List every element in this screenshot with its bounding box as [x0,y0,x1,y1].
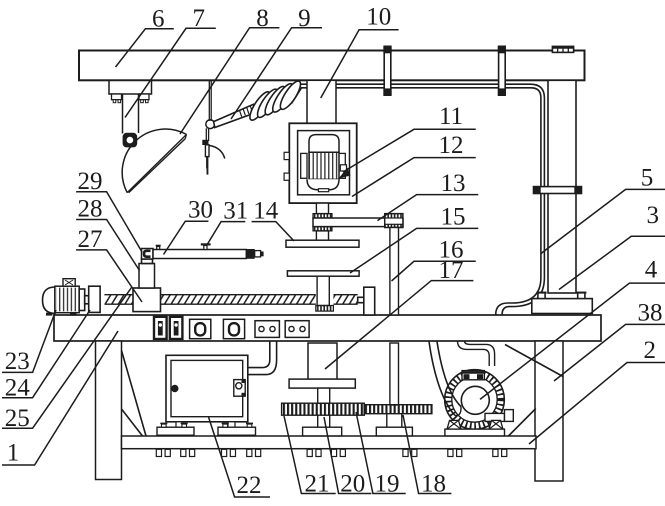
right brace lower [508,409,535,437]
motor bowl bottom [307,179,339,190]
lead screw item 25 [105,295,134,304]
svg-text:28: 28 [78,196,103,223]
top beam (item 6) [79,51,585,81]
lamp arm item 7 [122,94,124,134]
leader 19 [356,412,406,494]
socket plate 2 [285,321,309,338]
central column item 10 [307,80,336,123]
svg-text:8: 8 [256,5,269,32]
motor shaft [85,296,89,304]
right clamp pin bottom cap [498,88,506,95]
svg-text:14: 14 [253,197,279,224]
pipe elbow from coil, outer line [289,84,307,101]
svg-text:15: 15 [441,204,466,231]
leader 1 [2,331,118,465]
pump inner rotor [461,386,489,414]
motor right knob [340,165,346,171]
bolt pairs under shelf [156,449,161,456]
needle bracket [205,128,207,141]
left pedestal base [303,427,342,436]
platen support column [317,276,329,305]
lamp mount bracket [109,81,152,95]
motor foot right [70,313,77,316]
torch coil [246,89,273,123]
pump feet [447,420,461,429]
support column item 28 [139,264,155,289]
leader 24 [2,310,90,398]
ribbed cap on top of beam right [552,46,573,52]
svg-text:3: 3 [647,202,660,229]
hanging rod [208,81,210,122]
svg-text:23: 23 [5,348,30,375]
cylinder rod tip [261,252,264,257]
toggle switch 1 [154,317,167,339]
small pin item 31 [201,243,211,245]
upper platen item 14 [286,240,359,247]
leader 21 [284,416,336,494]
leader 38 [554,324,665,381]
svg-text:27: 27 [78,226,103,253]
needle clamp block [202,140,208,145]
left clamp pin top cap [383,46,391,53]
left clamp pin through beam [384,46,391,95]
platen support pad [316,306,334,312]
svg-text:21: 21 [305,470,330,497]
left pedestal stem item 20 [318,415,330,427]
lamp shade item 8 [122,129,186,193]
cylinder rod stub [255,251,261,257]
leader 25 [2,288,132,429]
svg-text:11: 11 [439,103,463,130]
svg-text:38: 38 [638,300,663,327]
rod knob [206,120,215,129]
lower clamp plate [289,379,355,388]
control box legs [176,422,183,427]
leader 28 [76,220,139,271]
right pedestal base [376,427,412,436]
svg-text:17: 17 [439,257,464,284]
plinth bolts [162,424,167,427]
base bolt right [578,293,585,299]
right clamp pin through beam [499,46,506,95]
svg-text:19: 19 [375,470,400,497]
leader 27 [76,250,142,302]
lamp joint [123,133,138,148]
air pipe item 5 outer line [336,84,544,314]
left brace upper [122,351,147,437]
socket plate 1 [255,321,279,338]
svg-text:9: 9 [298,5,311,32]
small gear item 19 [364,405,432,414]
svg-text:7: 7 [193,5,206,32]
motor right plate [339,153,345,178]
leader 8 [180,28,279,134]
clamp bar on pipe and column [534,187,582,194]
left brace lower [122,409,143,436]
leader 15 [350,228,478,273]
right column item 3 [548,80,576,293]
carriage nut block item 27 [133,288,161,312]
guide rod item 16 upper [390,228,399,316]
svg-text:13: 13 [441,170,466,197]
svg-text:20: 20 [340,470,365,497]
needle body [205,145,209,157]
work table item 1 [54,315,601,341]
svg-text:29: 29 [78,168,103,195]
right cap top band [385,214,403,218]
press arm item 13 [313,218,403,227]
leader 6 [116,29,174,67]
door hinge dot [172,386,178,392]
lower platen item 15 [287,271,359,276]
clamp bracket item 29 [142,249,154,260]
leader 29 [76,192,142,252]
right leg item 38 [535,341,563,481]
pump top cap [462,371,484,380]
cylinder item 30 [153,250,246,259]
box plinth left [157,427,194,435]
wire from panel to box lower [248,341,277,375]
door latch [234,380,245,397]
stem above gear [318,388,330,403]
leader 31 [208,222,246,244]
discharge pipe to pump top [458,341,490,366]
leader 30 [164,221,209,254]
leader 11 [343,129,476,172]
box left tabs [284,152,289,159]
svg-text:10: 10 [366,3,391,30]
control box item 22 outer [166,355,248,422]
bottom shelf item 2 [122,436,537,449]
column base plate [532,299,593,314]
lower press column item 17 [308,343,337,379]
needle tip [207,169,209,175]
leader 12 [352,158,476,197]
right clamp pin top cap [498,46,506,53]
leader 23 [2,310,56,372]
small pin P1 on cylinder [157,247,160,251]
left clamp pin bottom cap [383,88,391,95]
clamp bar right black end [574,187,581,194]
leader 20 [324,417,371,494]
svg-text:1: 1 [7,440,20,467]
control box inner door [171,360,243,416]
pipe elbow from coil, inner line [292,88,308,104]
svg-text:31: 31 [223,197,248,224]
right brace upper [505,345,563,377]
wire from panel to box upper [248,341,270,368]
suction pipe from table to pump [429,342,455,416]
svg-text:18: 18 [421,470,446,497]
left leg [96,341,122,480]
leader 17 [325,281,473,369]
arrowhead of leader 11 [339,168,351,179]
leader 14 [252,222,294,241]
motor box inner [298,131,350,195]
svg-text:5: 5 [641,165,654,192]
leader 4 [480,283,665,399]
needle lower [206,157,208,169]
arm right cap [385,214,403,228]
guide rod item 16 lower [390,343,399,405]
right cap bottom band [385,224,403,227]
screw right stub [358,297,364,302]
motor item 11 [309,135,339,153]
leader 9 [231,28,322,119]
bearing block item 24 [89,286,100,312]
lower left flange [313,227,332,231]
bracket feet [112,94,122,100]
leader 2 [529,363,665,445]
svg-text:24: 24 [5,375,31,402]
push button 1 [190,319,211,338]
svg-text:30: 30 [188,196,213,223]
pump outlet [485,413,505,421]
base bolt left [538,293,545,299]
upper left flange [313,214,332,218]
press shaft above arm [316,203,328,214]
cylinder black head [246,249,254,259]
leader 10 [321,30,399,98]
push button 2 [223,319,244,338]
toggle switch 2 [170,317,183,339]
right pedestal stem item 18 [387,414,402,428]
screw right bearing block [364,287,375,315]
torch arm item 9 [214,104,258,127]
motor left plate [301,153,307,178]
collar under bracket [142,259,153,264]
press shaft below arm [316,231,328,242]
motor terminal box [63,279,75,287]
svg-text:2: 2 [644,337,657,364]
motor foot left [46,313,53,316]
air pipe item 5 inner line [336,88,541,315]
big gear item 21 [282,403,365,415]
pump housing item 4 [445,370,505,430]
svg-text:22: 22 [237,472,262,499]
pump base plate [445,429,505,436]
box plinth right [218,427,256,435]
motor small foot [318,189,328,192]
svg-text:25: 25 [5,405,30,432]
motor item 23 [43,287,56,313]
leader 18 [403,415,451,494]
motor end cap [79,289,85,311]
curved wire at needle [210,146,225,159]
leader 16 [392,261,476,281]
clamp bar left black end [534,187,541,194]
motor box outer item 12 [289,123,356,203]
leader 22 [209,417,271,497]
leader 13 [378,195,479,221]
leader 3 [559,236,665,289]
leader 7 [125,28,216,117]
svg-text:6: 6 [152,5,165,32]
svg-text:12: 12 [439,132,464,159]
leader 5 [541,189,665,253]
svg-text:4: 4 [645,257,658,284]
